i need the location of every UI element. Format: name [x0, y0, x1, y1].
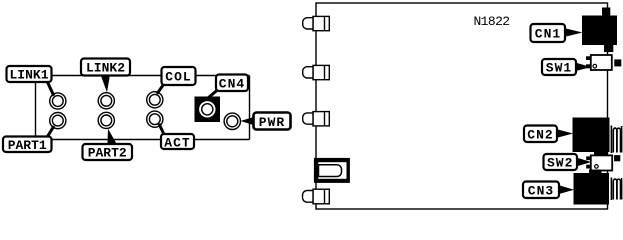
- label CN1: [531, 24, 566, 42]
- leader CN1: [565, 28, 583, 36]
- switch SW1: [586, 55, 621, 70]
- svg-text:N1822: N1822: [473, 14, 509, 29]
- svg-text:LINK2: LINK2: [86, 61, 125, 76]
- connector CN2: [573, 118, 610, 157]
- LED ACT: [147, 111, 163, 127]
- label CN3: [523, 182, 559, 199]
- LED PWR: [224, 113, 240, 129]
- wire panel top line: [51, 75, 250, 77]
- label ACT: [161, 134, 194, 150]
- connector CN1: [582, 8, 617, 53]
- leader ACT: [159, 124, 165, 136]
- svg-text:PWR: PWR: [259, 115, 285, 130]
- label SW2: [544, 154, 578, 171]
- LED dome 1 (edge view): [303, 16, 330, 30]
- svg-text:LINK1: LINK1: [9, 68, 48, 83]
- svg-text:SW2: SW2: [547, 156, 573, 171]
- label LINK2: [81, 59, 130, 76]
- connector CN3: [574, 170, 610, 205]
- label PWR: [254, 113, 291, 130]
- leader CN4: [209, 90, 218, 98]
- label CN4: [216, 75, 248, 92]
- leader PART1: [47, 126, 55, 138]
- LED PART2: [98, 112, 114, 128]
- wire panel left edge: [35, 81, 37, 138]
- svg-text:COL: COL: [165, 70, 191, 85]
- leader PART2: [108, 129, 118, 145]
- leader CN3: [559, 185, 574, 194]
- label COL: [162, 67, 196, 85]
- svg-text:PART1: PART1: [8, 138, 47, 153]
- coil CN2 threads: [611, 126, 621, 154]
- switch SW2: [586, 155, 620, 170]
- LED dome 2 (edge view): [303, 65, 330, 79]
- svg-text:CN2: CN2: [527, 127, 553, 142]
- LED dome 4 (edge view): [303, 189, 330, 204]
- svg-text:PART2: PART2: [88, 146, 127, 161]
- LED COL: [147, 92, 163, 108]
- card outline: [316, 3, 608, 209]
- label LINK1: [7, 66, 52, 83]
- svg-text:SW1: SW1: [546, 61, 572, 76]
- svg-text:CN4: CN4: [219, 77, 245, 92]
- leader PWR: [241, 117, 254, 125]
- LED PART1: [50, 113, 66, 129]
- leader SW1: [576, 63, 591, 71]
- leader COL: [157, 85, 164, 94]
- label PART2: [83, 144, 133, 161]
- leader LINK2: [101, 75, 111, 93]
- LED LINK2: [98, 93, 114, 109]
- leader CN2: [557, 129, 573, 138]
- coil CN3 threads: [611, 178, 621, 201]
- label SW1: [542, 59, 576, 76]
- wire panel right edge: [249, 76, 251, 140]
- leader SW2: [577, 158, 591, 167]
- connector RJ jack (edge view): [314, 158, 350, 183]
- wire panel bottom line: [51, 139, 250, 141]
- LED dome 3 (edge view): [303, 112, 330, 126]
- label PART1: [3, 137, 52, 154]
- svg-text:CN1: CN1: [535, 27, 561, 42]
- label CN2: [524, 126, 557, 143]
- leader LINK1: [47, 81, 54, 96]
- connector CN4 (BNC square): [195, 97, 221, 123]
- LED LINK1: [50, 93, 66, 109]
- svg-text:ACT: ACT: [164, 135, 190, 150]
- svg-text:CN3: CN3: [528, 183, 554, 198]
